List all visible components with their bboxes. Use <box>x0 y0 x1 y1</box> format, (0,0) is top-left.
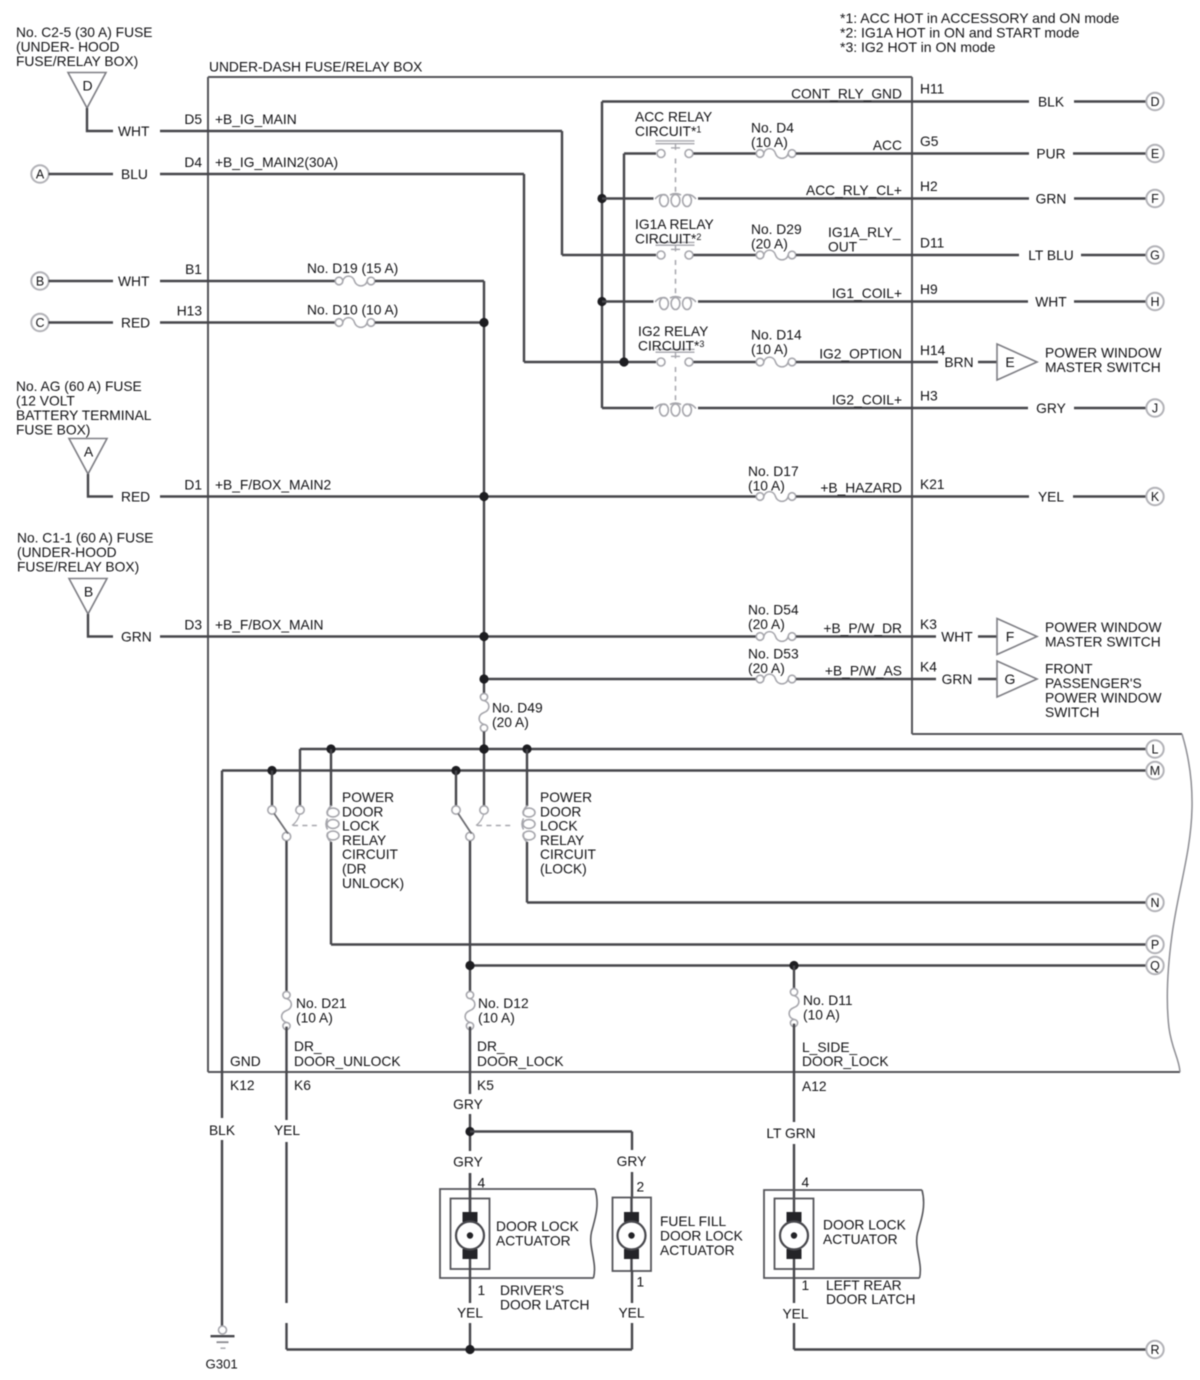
svg-text:POWER: POWER <box>342 790 394 805</box>
svg-text:BRN: BRN <box>944 355 973 370</box>
svg-text:IG1A RELAY: IG1A RELAY <box>635 217 714 232</box>
svg-text:(20 A): (20 A) <box>748 617 785 632</box>
svg-text:(20 A): (20 A) <box>748 661 785 676</box>
svg-text:K3: K3 <box>920 617 937 632</box>
svg-text:(20 A): (20 A) <box>751 237 788 252</box>
svg-text:CIRCUIT*3: CIRCUIT*3 <box>638 339 704 354</box>
svg-text:D1: D1 <box>184 478 202 493</box>
svg-text:DOOR LATCH: DOOR LATCH <box>500 1298 589 1313</box>
svg-text:POWER WINDOW: POWER WINDOW <box>1045 620 1162 635</box>
svg-text:(10 A): (10 A) <box>751 342 788 357</box>
svg-text:No. D54: No. D54 <box>748 603 799 618</box>
svg-text:1: 1 <box>802 1278 810 1293</box>
svg-text:2: 2 <box>637 1180 645 1195</box>
svg-text:MASTER SWITCH: MASTER SWITCH <box>1045 635 1161 650</box>
svg-text:DOOR LOCK: DOOR LOCK <box>496 1219 580 1234</box>
svg-text:(DR: (DR <box>342 862 367 877</box>
svg-text:WHT: WHT <box>1035 294 1067 309</box>
svg-text:GRN: GRN <box>942 672 973 687</box>
svg-text:ACTUATOR: ACTUATOR <box>660 1243 735 1258</box>
svg-text:CIRCUIT*1: CIRCUIT*1 <box>635 124 701 139</box>
svg-text:F: F <box>1006 629 1015 645</box>
svg-text:+B_P/W_DR: +B_P/W_DR <box>823 621 902 636</box>
svg-text:L_SIDE_: L_SIDE_ <box>802 1040 858 1055</box>
svg-text:FUSE/RELAY BOX): FUSE/RELAY BOX) <box>16 54 138 69</box>
svg-text:D4: D4 <box>184 155 202 170</box>
svg-text:LOCK: LOCK <box>342 819 380 834</box>
svg-text:G5: G5 <box>920 134 939 149</box>
svg-text:GRN: GRN <box>121 630 152 645</box>
svg-text:D5: D5 <box>184 112 202 127</box>
svg-text:DR_: DR_ <box>477 1039 505 1054</box>
svg-text:DR_: DR_ <box>294 1039 322 1054</box>
svg-text:WHT: WHT <box>118 124 150 139</box>
svg-text:M: M <box>1150 764 1160 778</box>
svg-text:J: J <box>1152 402 1158 416</box>
svg-text:No. D11: No. D11 <box>803 993 853 1008</box>
svg-text:No. AG (60 A) FUSE: No. AG (60 A) FUSE <box>16 379 142 394</box>
svg-text:(10 A): (10 A) <box>478 1011 515 1026</box>
svg-text:(10 A): (10 A) <box>296 1011 333 1026</box>
svg-text:YEL: YEL <box>274 1123 300 1138</box>
svg-text:No. D17: No. D17 <box>748 464 799 479</box>
svg-text:D: D <box>1150 95 1159 109</box>
svg-text:ACC RELAY: ACC RELAY <box>635 110 712 125</box>
svg-text:*3: IG2 HOT in ON mode: *3: IG2 HOT in ON mode <box>840 39 996 55</box>
svg-text:E: E <box>1151 147 1159 161</box>
svg-text:CIRCUIT: CIRCUIT <box>342 847 399 862</box>
svg-text:YEL: YEL <box>457 1306 483 1321</box>
svg-text:PUR: PUR <box>1036 146 1065 161</box>
svg-text:K6: K6 <box>294 1078 311 1093</box>
svg-text:L: L <box>1152 743 1159 757</box>
svg-text:ACC: ACC <box>873 138 902 153</box>
svg-text:GRY: GRY <box>1036 401 1066 416</box>
svg-text:GRN: GRN <box>1036 191 1067 206</box>
svg-text:A12: A12 <box>802 1079 827 1094</box>
svg-text:YEL: YEL <box>782 1307 808 1322</box>
svg-text:FRONT: FRONT <box>1045 662 1093 677</box>
svg-text:CIRCUIT*2: CIRCUIT*2 <box>635 232 701 247</box>
svg-text:DOOR_UNLOCK: DOOR_UNLOCK <box>294 1054 401 1069</box>
svg-text:Q: Q <box>1150 959 1160 973</box>
svg-text:+B_HAZARD: +B_HAZARD <box>820 481 902 496</box>
svg-text:DOOR: DOOR <box>540 804 581 819</box>
svg-text:LEFT REAR: LEFT REAR <box>826 1278 902 1293</box>
svg-text:IG1_COIL+: IG1_COIL+ <box>832 286 902 301</box>
svg-text:OUT: OUT <box>828 240 858 255</box>
svg-text:No. D29: No. D29 <box>751 222 802 237</box>
svg-text:D3: D3 <box>184 618 202 633</box>
svg-text:FUEL FILL: FUEL FILL <box>660 1214 727 1229</box>
svg-text:No. D19 (15 A): No. D19 (15 A) <box>307 261 398 276</box>
svg-text:+B_IG_MAIN2(30A): +B_IG_MAIN2(30A) <box>215 155 338 170</box>
svg-text:(LOCK): (LOCK) <box>540 862 587 877</box>
svg-text:DRIVER'S: DRIVER'S <box>500 1283 564 1298</box>
svg-text:WHT: WHT <box>941 630 973 645</box>
svg-text:DOOR: DOOR <box>342 804 383 819</box>
svg-text:LOCK: LOCK <box>540 819 578 834</box>
svg-text:G: G <box>1150 249 1160 263</box>
svg-text:1: 1 <box>478 1283 486 1298</box>
svg-text:K5: K5 <box>477 1078 494 1093</box>
svg-text:+B_IG_MAIN: +B_IG_MAIN <box>215 112 297 127</box>
svg-text:No. D10 (10 A): No. D10 (10 A) <box>307 303 398 318</box>
svg-text:K4: K4 <box>920 660 937 675</box>
svg-text:GRY: GRY <box>453 1097 483 1112</box>
svg-text:K: K <box>1151 490 1160 504</box>
svg-text:H13: H13 <box>177 304 203 319</box>
svg-text:H: H <box>1150 295 1159 309</box>
svg-text:K21: K21 <box>920 477 945 492</box>
svg-text:RELAY: RELAY <box>342 833 386 848</box>
svg-text:R: R <box>1150 1343 1159 1357</box>
svg-text:GRY: GRY <box>453 1155 483 1170</box>
svg-text:CIRCUIT: CIRCUIT <box>540 847 597 862</box>
svg-text:POWER: POWER <box>540 790 592 805</box>
svg-text:A: A <box>36 168 45 182</box>
svg-text:DOOR_LOCK: DOOR_LOCK <box>477 1054 564 1069</box>
svg-text:YEL: YEL <box>1038 489 1064 504</box>
svg-text:+B_F/BOX_MAIN2: +B_F/BOX_MAIN2 <box>215 478 331 493</box>
svg-text:IG1A_RLY_: IG1A_RLY_ <box>828 225 901 240</box>
svg-text:RED: RED <box>121 316 150 331</box>
svg-text:IG2_OPTION: IG2_OPTION <box>819 347 902 362</box>
svg-text:F: F <box>1151 192 1159 206</box>
svg-text:(10 A): (10 A) <box>748 479 785 494</box>
svg-text:P: P <box>1151 938 1159 952</box>
svg-text:1: 1 <box>637 1275 645 1290</box>
svg-text:+B_P/W_AS: +B_P/W_AS <box>825 664 902 679</box>
svg-text:No. D49: No. D49 <box>492 701 543 716</box>
svg-text:G: G <box>1005 671 1016 687</box>
svg-text:No. C1-1 (60 A) FUSE: No. C1-1 (60 A) FUSE <box>17 531 153 546</box>
svg-text:CONT_RLY_GND: CONT_RLY_GND <box>791 87 902 102</box>
svg-text:H9: H9 <box>920 282 938 297</box>
svg-text:UNDER-DASH FUSE/RELAY BOX: UNDER-DASH FUSE/RELAY BOX <box>209 60 422 75</box>
svg-text:A: A <box>84 444 94 460</box>
svg-text:+B_F/BOX_MAIN: +B_F/BOX_MAIN <box>215 618 324 633</box>
svg-text:ACTUATOR: ACTUATOR <box>496 1234 571 1249</box>
svg-text:UNLOCK): UNLOCK) <box>342 876 404 891</box>
svg-text:RELAY: RELAY <box>540 833 584 848</box>
svg-text:No. D4: No. D4 <box>751 121 794 136</box>
svg-text:B: B <box>36 275 44 289</box>
svg-text:POWER WINDOW: POWER WINDOW <box>1045 346 1162 361</box>
svg-text:K12: K12 <box>230 1078 255 1093</box>
svg-text:(10 A): (10 A) <box>803 1008 840 1023</box>
svg-text:LT BLU: LT BLU <box>1028 248 1074 263</box>
svg-text:H11: H11 <box>920 82 944 97</box>
svg-text:B1: B1 <box>185 262 202 277</box>
svg-text:C: C <box>35 316 44 330</box>
svg-text:G301: G301 <box>206 1357 238 1372</box>
svg-text:YEL: YEL <box>618 1306 644 1321</box>
svg-text:WHT: WHT <box>118 274 150 289</box>
svg-text:IG2_COIL+: IG2_COIL+ <box>832 393 902 408</box>
svg-text:FUSE/RELAY BOX): FUSE/RELAY BOX) <box>17 560 139 575</box>
svg-text:B: B <box>84 584 93 600</box>
svg-text:BLU: BLU <box>121 167 148 182</box>
svg-text:BLK: BLK <box>209 1123 236 1138</box>
svg-text:GRY: GRY <box>617 1154 647 1169</box>
svg-text:No. D21: No. D21 <box>296 996 347 1011</box>
svg-text:DOOR LATCH: DOOR LATCH <box>826 1292 915 1307</box>
svg-text:4: 4 <box>802 1175 810 1190</box>
svg-text:H3: H3 <box>920 389 938 404</box>
svg-text:(UNDER-HOOD: (UNDER-HOOD <box>17 545 117 560</box>
svg-text:IG2 RELAY: IG2 RELAY <box>638 324 708 339</box>
svg-text:No. D12: No. D12 <box>478 996 529 1011</box>
svg-text:POWER WINDOW: POWER WINDOW <box>1045 691 1162 706</box>
svg-text:GND: GND <box>230 1054 261 1069</box>
svg-text:(UNDER- HOOD: (UNDER- HOOD <box>16 40 120 55</box>
svg-text:ACC_RLY_CL+: ACC_RLY_CL+ <box>806 183 902 198</box>
svg-text:(12 VOLT: (12 VOLT <box>16 394 75 409</box>
svg-text:4: 4 <box>478 1176 486 1191</box>
svg-text:BLK: BLK <box>1038 94 1065 109</box>
svg-text:DOOR_LOCK: DOOR_LOCK <box>802 1054 889 1069</box>
svg-text:LT GRN: LT GRN <box>766 1126 815 1141</box>
svg-text:(10 A): (10 A) <box>751 135 788 150</box>
svg-text:D: D <box>82 78 92 94</box>
svg-text:No. C2-5 (30 A) FUSE: No. C2-5 (30 A) FUSE <box>16 25 152 40</box>
svg-text:FUSE BOX): FUSE BOX) <box>16 423 90 438</box>
svg-text:ACTUATOR: ACTUATOR <box>823 1232 898 1247</box>
svg-text:D11: D11 <box>920 236 944 251</box>
svg-text:MASTER SWITCH: MASTER SWITCH <box>1045 360 1161 375</box>
svg-text:No. D14: No. D14 <box>751 328 802 343</box>
svg-text:E: E <box>1005 354 1014 370</box>
svg-text:BATTERY TERMINAL: BATTERY TERMINAL <box>16 408 152 423</box>
svg-text:(20 A): (20 A) <box>492 715 529 730</box>
svg-text:DOOR LOCK: DOOR LOCK <box>823 1218 907 1233</box>
svg-text:SWITCH: SWITCH <box>1045 705 1099 720</box>
svg-text:H2: H2 <box>920 179 938 194</box>
svg-text:PASSENGER'S: PASSENGER'S <box>1045 676 1142 691</box>
svg-text:No. D53: No. D53 <box>748 647 799 662</box>
svg-text:H14: H14 <box>920 343 946 358</box>
svg-text:RED: RED <box>121 490 150 505</box>
svg-text:N: N <box>1150 896 1159 910</box>
svg-text:DOOR LOCK: DOOR LOCK <box>660 1229 744 1244</box>
